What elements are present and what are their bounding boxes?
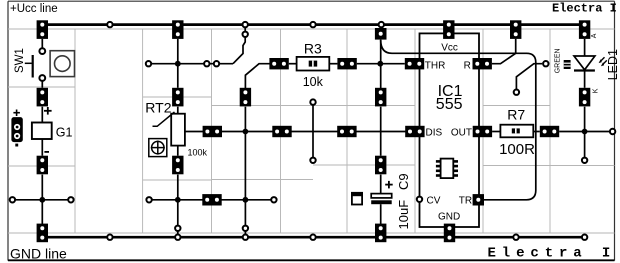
- svg-text:100k: 100k: [188, 147, 208, 157]
- pads: horizontal row 63.7: [269, 58, 492, 69]
- pad R3 left: [269, 58, 288, 69]
- pad RT2 top: [172, 88, 183, 107]
- svg-text:CV: CV: [427, 196, 441, 207]
- junction bottom row col178: [175, 197, 181, 203]
- via bottom row 12: [10, 197, 15, 202]
- junction RT2 col row63: [175, 61, 181, 67]
- svg-text:R3: R3: [304, 40, 322, 56]
- svg-text:LED1: LED1: [606, 49, 620, 80]
- svg-text:Electra I: Electra I: [488, 246, 617, 262]
- LED1 triangle symbol: [574, 56, 595, 70]
- pads: column 380 / C9: [375, 88, 386, 175]
- svg-text:GND line: GND line: [10, 246, 67, 262]
- svg-text:10uF: 10uF: [396, 200, 411, 230]
- wire G1 minus to pad: [41, 139, 43, 156]
- terminal SW1 bottom: [39, 75, 45, 81]
- wire K pad down through junction to ring: [584, 107, 586, 161]
- GND rail line: [42, 236, 584, 239]
- via rail 178: [175, 235, 180, 240]
- pad bus column 515: [510, 20, 521, 39]
- LED1 light arrows: [600, 57, 607, 65]
- svg-text:100R: 100R: [499, 141, 535, 158]
- C9 plus mark: [385, 181, 393, 189]
- wire column 380: C9 pad to capacitor plate: [380, 175, 382, 194]
- wire R3 left pad to body: [289, 63, 297, 65]
- pad bus SW1 column: [37, 20, 48, 39]
- wire net R: curve from pad 381 to horizontal run to vertical drop to TR pad: [381, 40, 536, 200]
- svg-text:+Ucc line: +Ucc line: [10, 3, 58, 15]
- pads: RT2 column: [172, 88, 251, 175]
- pad row131 col347: [337, 126, 356, 137]
- pad bus Vcc column: [443, 20, 454, 39]
- wire LED column: bus pad down to LED anode: [584, 39, 586, 56]
- pad row131 col282: [272, 126, 291, 137]
- pad DIS: [405, 126, 424, 137]
- wire R7 body to right pad crossing vertical: [533, 131, 540, 133]
- pad OUT: [473, 126, 492, 137]
- svg-text:G1: G1: [56, 125, 73, 139]
- RT2 adjust symbol: [149, 139, 167, 157]
- via right of LED junction: [610, 129, 615, 134]
- R3 value band: [309, 61, 318, 67]
- wire SW1 bottom terminal to pad: [41, 81, 43, 87]
- svg-text:RT2: RT2: [145, 99, 171, 115]
- pad bus RT2 column: [172, 20, 183, 39]
- RT2 diagonal strike: [153, 112, 175, 126]
- wire R3 left pad bend down to mid pad: [245, 64, 270, 88]
- svg-text:SW1: SW1: [14, 48, 26, 73]
- IC1 555 body outline: [420, 33, 480, 227]
- svg-text:555: 555: [436, 96, 463, 113]
- svg-text:DIS: DIS: [426, 127, 443, 138]
- via rail 245: [243, 235, 248, 240]
- svg-text:TR: TR: [459, 196, 472, 207]
- connector minus dot: [15, 144, 18, 147]
- pad RT2 bottom: [172, 156, 183, 175]
- svg-text:C9: C9: [396, 173, 411, 190]
- pad bottom row 199.8 column 212: [202, 194, 221, 205]
- connector plus mark: [13, 110, 20, 117]
- pad R7 right: [540, 126, 559, 137]
- wire row 63.7 left: ring to rings pair: [149, 63, 234, 65]
- via LED column row160: [582, 158, 587, 163]
- wire bend up to via pair below bus: [233, 27, 245, 64]
- resistor R7 body: [500, 125, 533, 138]
- via col516 row92: [514, 90, 519, 95]
- pad GND SW1 column: [37, 224, 48, 243]
- junction DIS row col245: [243, 129, 249, 135]
- junction bottom row col245: [243, 197, 249, 203]
- wire junction to GND pad: [41, 200, 43, 224]
- via rail 585: [582, 235, 587, 240]
- pad C9 top: [375, 156, 386, 175]
- svg-text:GND: GND: [438, 212, 460, 223]
- wire C9 bottom plate to GND pad: [380, 204, 382, 224]
- svg-text:THR: THR: [425, 61, 446, 72]
- via row63 148: [146, 61, 151, 66]
- IC package icon: [436, 159, 458, 179]
- wire R pad diagonal up to horizontal run: [492, 53, 516, 63]
- wire ring 545 left diagonal down to ring 516: [516, 64, 542, 90]
- pad below bus column 380: [375, 28, 387, 40]
- via rail 313: [310, 235, 315, 240]
- wire bottom row: ring to pad to junction to ring: [149, 199, 274, 201]
- wire column 380: pad through DIS row to C9 pad: [380, 107, 382, 156]
- via bottom row 71: [68, 197, 73, 202]
- svg-text:K: K: [593, 88, 600, 93]
- wire column 380: square pad to THR junction: [380, 40, 382, 64]
- pad GND C9 column: [375, 224, 386, 243]
- via row63 216: [214, 61, 219, 66]
- wire R3 right pad to THR junction and THR pad: [357, 63, 405, 65]
- via rail 110: [107, 235, 112, 240]
- terminal SW1 top: [39, 48, 45, 54]
- switch SW1 lever: [32, 55, 34, 78]
- wire RT2 body to lower pad: [177, 146, 179, 156]
- svg-text:Electra I: Electra I: [552, 1, 617, 15]
- pad bus LED column: [579, 20, 590, 39]
- wire SW1 column: bus pad to SW1 top terminal: [41, 39, 43, 48]
- G1 minus mark: [44, 151, 49, 153]
- pads: horizontal row 131.5: [203, 126, 560, 137]
- wire mid column: pad down through DIS row to bottom junction: [244, 107, 246, 237]
- wire RT2 pad to body: [177, 107, 179, 114]
- battery clip connector pads: [11, 117, 22, 142]
- pad TR single: [473, 194, 484, 205]
- wire LED cathode bar to K pad: [584, 70, 586, 88]
- svg-text:R7: R7: [507, 107, 525, 123]
- pad THR: [405, 58, 424, 69]
- via bus 110: [107, 22, 112, 27]
- pads: SW1/G1 column: [37, 88, 48, 175]
- SW1 label tick: [25, 62, 32, 64]
- pads: vertical two-hole pads on +Ucc bus: [37, 20, 591, 39]
- wire pad 515 down to horizontal run: [515, 39, 517, 53]
- capacitor C9 positive plate: [371, 194, 392, 198]
- svg-text:GREEN: GREEN: [555, 48, 562, 73]
- pad R: [473, 58, 492, 69]
- svg-text:R: R: [464, 61, 471, 72]
- pads: GND rail: [37, 224, 456, 243]
- svg-text:Vcc: Vcc: [441, 42, 458, 53]
- pad G1 minus: [37, 156, 48, 175]
- via bus 381: [379, 22, 384, 27]
- wire RT2 column junction down to rail rings: [177, 200, 179, 237]
- wire RT2 wiper row: body to pads to DIS pad: [185, 131, 406, 133]
- pad SW1 to G1: [37, 88, 48, 107]
- via pair column 245: [243, 22, 248, 27]
- C9 polarity square symbol: [352, 193, 362, 205]
- wire R7 right pad to LED column junction and ring right: [559, 131, 612, 133]
- LED1 cathode bar: [574, 69, 595, 71]
- via rail 516: [513, 235, 518, 240]
- wire pad to G1 plus: [41, 107, 43, 123]
- wire RT2 lower pad down to junction: [177, 175, 179, 200]
- via col178 row228: [175, 226, 180, 231]
- C9 negative plate: [371, 200, 392, 204]
- junction THR row63: [377, 61, 383, 67]
- via col313 row160: [310, 158, 315, 163]
- thermistor RT2 body: [171, 114, 185, 146]
- via bus 313: [310, 22, 315, 27]
- via col245 row228: [243, 226, 248, 231]
- SW1 push button symbol: [50, 51, 74, 77]
- wire R3 body to right pad: [329, 63, 337, 65]
- junction LED col row131: [582, 129, 588, 135]
- svg-text:OUT: OUT: [451, 127, 472, 138]
- pad mid column 245: [240, 88, 251, 107]
- svg-text:10k: 10k: [303, 75, 324, 89]
- pad R3 right: [337, 58, 356, 69]
- grid cell lines: [8, 29, 615, 233]
- via bottom row 274: [271, 197, 276, 202]
- junction bottom row col42: [39, 197, 45, 203]
- R7 value band: [512, 128, 520, 133]
- wire column 380: junction down to pad: [380, 64, 382, 88]
- wire column 313: ring to ring crossing DIS row: [312, 102, 314, 160]
- via bottom row 149: [146, 197, 151, 202]
- via col313 row102: [310, 99, 315, 104]
- pad LED K cathode: [579, 88, 590, 107]
- bottom border bar: [8, 259, 615, 261]
- wire RT2 column: bus pad down to row junction: [177, 39, 179, 88]
- LED color chip symbol: [564, 60, 571, 69]
- resistor R3 body: [297, 57, 330, 71]
- battery G1 body: [32, 123, 52, 140]
- via row63 207: [204, 61, 209, 66]
- via CV pin: [417, 197, 422, 202]
- wire pad down to junction row: [41, 175, 43, 200]
- svg-text:A: A: [591, 33, 598, 38]
- pad GND IC column: [444, 224, 455, 243]
- pad RT2 wiper right: [203, 126, 222, 137]
- wire bottom-left row: ring to ring through junction: [12, 199, 71, 201]
- +Ucc bus line: [41, 23, 585, 26]
- wire OUT pad to R7 body: [492, 131, 500, 133]
- via row63 545: [543, 61, 548, 66]
- G1 plus mark: [44, 107, 52, 115]
